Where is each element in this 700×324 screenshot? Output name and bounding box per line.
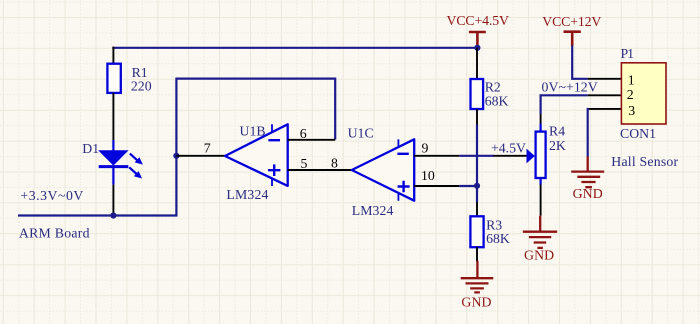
svg-text:1: 1 — [628, 72, 635, 87]
op-amp U1C — [352, 139, 414, 201]
wire R2 top pin — [476, 48, 478, 79]
svg-text:LM324: LM324 — [226, 187, 268, 202]
svg-text:2K: 2K — [549, 138, 566, 153]
svg-text:VCC+12V: VCC+12V — [542, 14, 601, 29]
svg-text:D1: D1 — [82, 141, 99, 156]
svg-text:68K: 68K — [485, 94, 509, 109]
node junction divider — [474, 183, 480, 189]
svg-text:220: 220 — [131, 79, 152, 94]
wire R4 top pin — [540, 114, 542, 124]
svg-text:U1B: U1B — [240, 124, 266, 139]
svg-text:9: 9 — [422, 140, 429, 155]
wire U1B pin 6 — [288, 139, 336, 141]
power VCC+12V — [564, 32, 581, 46]
svg-text:R4: R4 — [549, 123, 565, 138]
wire pin 10 to divider node — [459, 185, 477, 187]
resistor R2 — [471, 79, 484, 109]
svg-text:R1: R1 — [132, 65, 148, 80]
resistor R1 — [107, 64, 120, 93]
wire R1 bottom to D1 — [112, 93, 114, 140]
wire divider node vertical — [476, 125, 478, 203]
node junction U1B output — [173, 153, 179, 159]
svg-text:VCC+4.5V: VCC+4.5V — [447, 13, 510, 28]
svg-text:R2: R2 — [485, 80, 501, 95]
node junction top — [474, 45, 480, 51]
wire top net R1 to VCC+4.5V — [112, 47, 477, 49]
wire U1B pin 5 to U1C pin 8 — [288, 169, 352, 171]
wire pin 3 net to GND — [587, 108, 589, 157]
wire U1C pin 9 stub — [414, 155, 459, 157]
ground P1 pin 3 — [571, 157, 604, 188]
svg-text:P1: P1 — [621, 46, 635, 61]
op-amp U1B — [225, 124, 288, 186]
wire P1 pin 3 stub — [588, 108, 622, 110]
svg-text:0V~+12V: 0V~+12V — [542, 79, 598, 94]
ground below R3 — [461, 261, 494, 293]
wire VCC+12V to P1 pin 1 — [572, 46, 588, 79]
svg-text:2: 2 — [627, 87, 634, 102]
wire R3 bottom pin — [476, 247, 478, 261]
potentiometer R4 — [527, 132, 546, 178]
svg-text:LM324: LM324 — [352, 203, 394, 218]
wire P1 pin 1 stub — [588, 78, 622, 80]
svg-text:U1C: U1C — [348, 125, 374, 140]
wire pin 9 to R4 wiper — [459, 155, 494, 157]
wire P1 pin 2 stub — [588, 94, 622, 96]
wire R4 bottom pin — [539, 178, 541, 185]
wire U1B pin 7 — [176, 155, 226, 157]
power VCC+4.5V — [469, 32, 486, 47]
diode D1 LED — [98, 140, 143, 185]
svg-text:5: 5 — [301, 156, 308, 171]
svg-text:Hall Sensor: Hall Sensor — [611, 154, 678, 169]
svg-text:GND: GND — [524, 248, 554, 263]
wire D1 bottom — [112, 185, 114, 216]
svg-text:8: 8 — [331, 156, 338, 171]
wire R4 wiper pin — [494, 155, 527, 157]
svg-text:+3.3V~0V: +3.3V~0V — [20, 188, 83, 203]
wire ARM board net — [18, 79, 335, 216]
wire R2 bottom pin — [476, 109, 478, 125]
ground below R4 — [523, 216, 557, 248]
svg-text:6: 6 — [300, 126, 307, 141]
svg-text:ARM Board: ARM Board — [19, 226, 90, 241]
svg-text:3: 3 — [628, 103, 635, 118]
svg-text:10: 10 — [421, 168, 435, 183]
svg-text:7: 7 — [204, 140, 211, 155]
svg-text:GND: GND — [573, 186, 603, 201]
wire U1C pin 10 stub — [414, 185, 459, 187]
node junction D1/ARM — [110, 212, 116, 218]
resistor R3 — [470, 216, 483, 247]
wire pin 2 net to R4 top — [541, 95, 588, 114]
connector P1 — [621, 63, 666, 124]
wire R3 top pin — [476, 202, 478, 216]
svg-text:GND: GND — [461, 295, 491, 310]
svg-text:CON1: CON1 — [620, 126, 656, 141]
svg-text:68K: 68K — [486, 231, 510, 246]
wire R1 top pin — [112, 47, 114, 64]
svg-text:+4.5V: +4.5V — [491, 141, 526, 156]
